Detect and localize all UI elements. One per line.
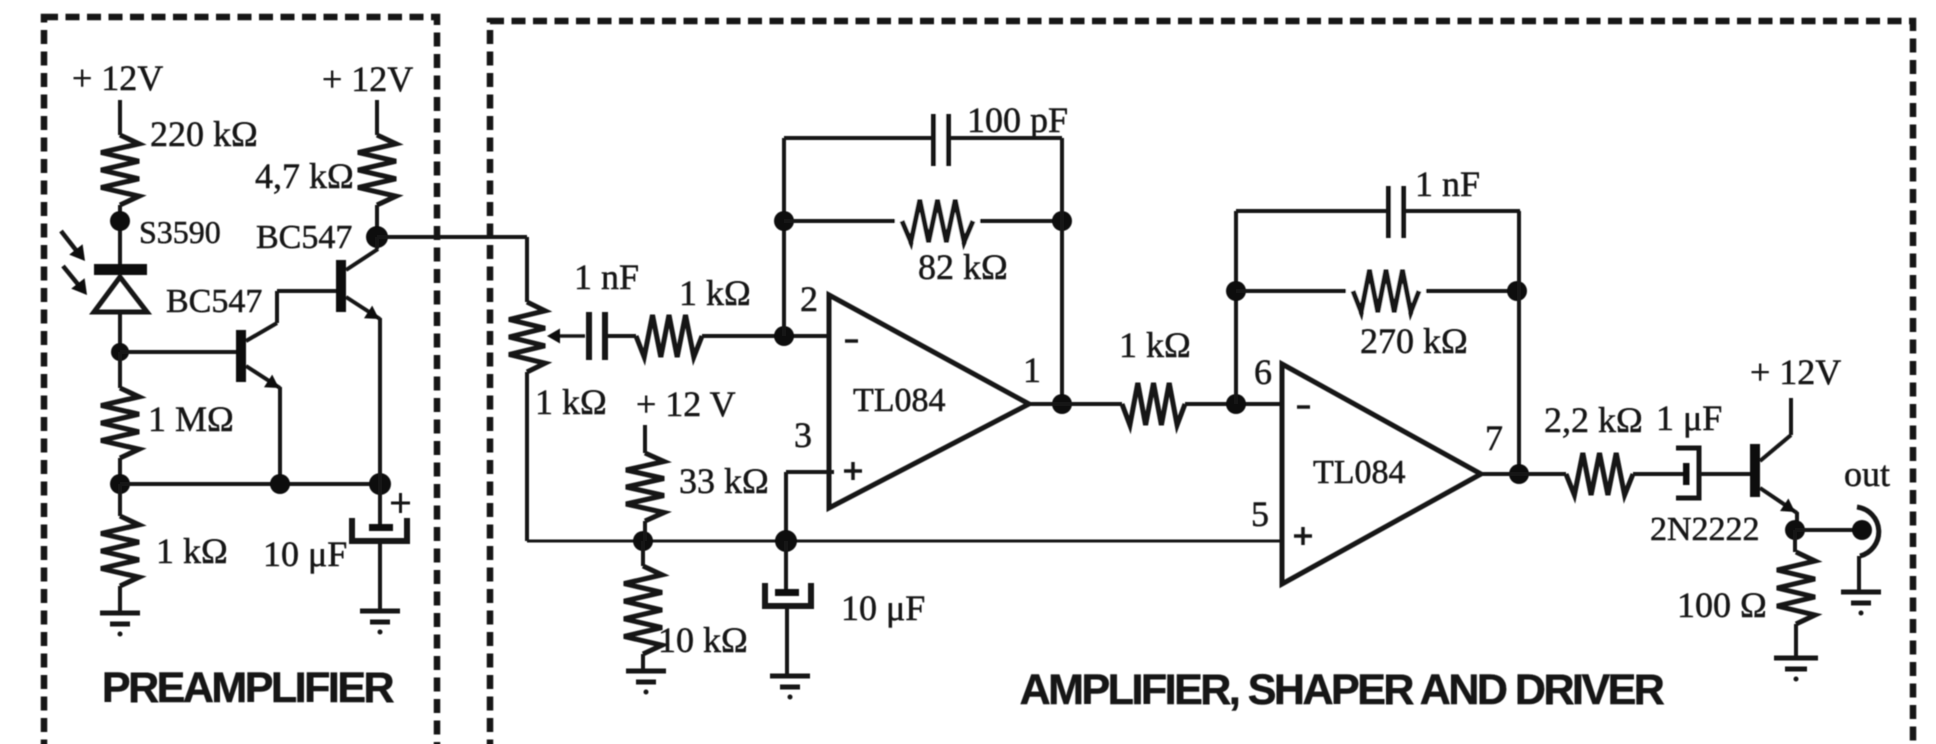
svg-text:82 kΩ: 82 kΩ (918, 247, 1008, 287)
svg-text:AMPLIFIER, SHAPER AND DRIVER: AMPLIFIER, SHAPER AND DRIVER (1020, 666, 1665, 714)
svg-text:1 μF: 1 μF (1656, 398, 1722, 438)
svg-text:2N2222: 2N2222 (1650, 511, 1760, 548)
svg-text:BC547: BC547 (166, 283, 262, 320)
svg-text:4,7 kΩ: 4,7 kΩ (255, 156, 354, 196)
svg-text:7: 7 (1485, 418, 1503, 458)
svg-text:1 MΩ: 1 MΩ (148, 399, 234, 439)
svg-text:PREAMPLIFIER: PREAMPLIFIER (102, 664, 395, 712)
svg-text:2: 2 (800, 279, 818, 319)
svg-text:5: 5 (1251, 494, 1269, 534)
svg-text:100 pF: 100 pF (967, 100, 1068, 140)
svg-text:6: 6 (1254, 352, 1272, 392)
svg-text:10 kΩ: 10 kΩ (658, 620, 748, 660)
svg-text:1 kΩ: 1 kΩ (1119, 325, 1191, 365)
svg-text:out: out (1844, 454, 1890, 494)
svg-text:270 kΩ: 270 kΩ (1360, 321, 1468, 361)
svg-text:1 nF: 1 nF (574, 257, 639, 297)
svg-text:1: 1 (1023, 350, 1041, 390)
svg-text:10 μF: 10 μF (841, 588, 925, 628)
svg-text:+ 12V: + 12V (72, 58, 163, 98)
svg-text:TL084: TL084 (853, 382, 946, 419)
svg-text:1 kΩ: 1 kΩ (679, 273, 751, 313)
svg-text:1 kΩ: 1 kΩ (535, 382, 607, 422)
svg-text:S3590: S3590 (139, 214, 221, 250)
svg-text:33 kΩ: 33 kΩ (679, 461, 769, 501)
svg-text:1 nF: 1 nF (1415, 164, 1480, 204)
svg-text:TL084: TL084 (1313, 454, 1406, 491)
svg-text:2,2 kΩ: 2,2 kΩ (1544, 400, 1643, 440)
svg-text:+ 12V: + 12V (322, 59, 413, 99)
svg-text:10 μF: 10 μF (263, 534, 347, 574)
svg-text:220 kΩ: 220 kΩ (150, 114, 258, 154)
svg-text:BC547: BC547 (256, 219, 352, 256)
svg-text:+ 12V: + 12V (1750, 352, 1841, 392)
svg-text:100 Ω: 100 Ω (1677, 585, 1767, 625)
svg-text:+ 12 V: + 12 V (636, 384, 736, 424)
svg-text:1 kΩ: 1 kΩ (156, 531, 228, 571)
svg-text:3: 3 (794, 415, 812, 455)
